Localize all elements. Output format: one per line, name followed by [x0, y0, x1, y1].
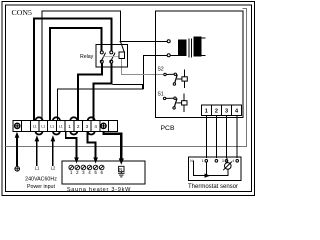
- wire relay contact1 bottom to heater feed: [78, 63, 102, 121]
- connector pin numbers 1-4: [205, 109, 239, 115]
- terminal strip tiny labels: [33, 124, 63, 128]
- svg-text:Relay: Relay: [80, 54, 94, 60]
- thermistor: [225, 163, 232, 170]
- wire power L2 with arrow: [52, 140, 54, 166]
- svg-text:Sauna heater 3-9kW: Sauna heater 3-9kW: [67, 187, 131, 193]
- wire relay contact2 bottom to heater feed: [94, 63, 112, 121]
- strip jumper arcs top: [36, 117, 95, 120]
- svg-text:CON5: CON5: [12, 8, 32, 17]
- svg-text:3: 3: [225, 109, 228, 115]
- thermostat sensor box: [189, 157, 241, 180]
- sensor terminal labels: [190, 159, 234, 163]
- wire strip c6 up to junction, over to S1: [57, 89, 143, 121]
- ground symbol power input: [15, 167, 20, 172]
- wire W2 thick: terminal 3 up over to relay contact 2: [34, 19, 111, 121]
- wire connector to sensor 4: [236, 116, 238, 159]
- terminal strip numbers 1-4: [68, 124, 97, 129]
- relay contact 2: [110, 51, 113, 54]
- wire connector to sensor 2: [215, 116, 217, 159]
- connector CON (1-4) on PCB: [201, 105, 241, 116]
- wire heater feed 1 (to terminal 2): [66, 131, 77, 158]
- wire heater feed 2 (to terminal 5): [87, 131, 95, 158]
- wire power earth with arrow: [16, 137, 18, 167]
- transformer T1 terminal pins: [167, 40, 178, 57]
- wire tap from relay contact2 to S1 feed: [112, 85, 142, 89]
- outer border frame: [2, 2, 255, 196]
- sensor terminals: [205, 160, 208, 163]
- heater terminal numbers 1-6: [70, 170, 104, 175]
- svg-text:4: 4: [232, 159, 234, 163]
- terminal earth symbol left: [15, 123, 20, 128]
- svg-text:4: 4: [94, 124, 97, 129]
- switch S1 actuator: [176, 102, 181, 104]
- wire W3 thick: terminal 5 up over to relay contact 1: [50, 28, 102, 121]
- svg-text:240VAC60Hz: 240VAC60Hz: [25, 177, 57, 183]
- relay linkage (gray): [104, 56, 119, 58]
- svg-text:1: 1: [205, 109, 208, 115]
- relay contact 1: [100, 51, 103, 54]
- switch S2 contacts and lever: [164, 73, 166, 75]
- wire power L1 with arrow: [36, 140, 38, 166]
- svg-text:3: 3: [86, 124, 89, 129]
- svg-text:L1: L1: [41, 124, 45, 128]
- wire connector to sensor 1: [205, 116, 207, 159]
- svg-text:N: N: [119, 167, 122, 172]
- terminal strip X1: [13, 121, 117, 132]
- transformer T1 core: [189, 39, 191, 58]
- power labels: [35, 166, 56, 171]
- switch S1 contacts and lever: [163, 97, 165, 99]
- relay K1 box: [96, 45, 128, 68]
- wire connector to sensor 3: [226, 116, 228, 159]
- heater earth terminal: [119, 166, 124, 171]
- heater terminals 1-6: [69, 165, 104, 170]
- wire W1 thin: terminal 4 up over to relay coil node: [42, 11, 121, 121]
- strip jumper arcs bottom: [36, 131, 95, 134]
- sauna heater box: [62, 161, 145, 184]
- svg-text:Power input: Power input: [27, 184, 55, 190]
- svg-text:L1: L1: [50, 124, 54, 128]
- transformer T1 primary winding: [179, 40, 187, 55]
- wire relay coil bottom to S2 (gray): [122, 59, 164, 75]
- svg-text:1: 1: [202, 159, 204, 163]
- wire right-side loop + partition: [6, 8, 247, 146]
- svg-text:Thermostat sensor: Thermostat sensor: [188, 184, 238, 190]
- wire heater earth (thick): [104, 131, 122, 159]
- svg-text:2: 2: [77, 124, 80, 129]
- wire coil diagonal: [121, 42, 125, 53]
- PCB box: [156, 11, 244, 118]
- wire W1 to transformer primary top: [121, 41, 168, 43]
- svg-text:3: 3: [222, 159, 224, 163]
- transformer T1 secondary winding: [194, 37, 206, 56]
- svg-text:L2: L2: [51, 166, 56, 171]
- svg-text:1: 1: [68, 124, 71, 129]
- svg-text:L1: L1: [59, 124, 63, 128]
- svg-text:PCB: PCB: [161, 125, 175, 132]
- svg-text:2: 2: [215, 109, 218, 115]
- switch S2 actuator: [177, 78, 182, 80]
- terminal earth symbol right: [101, 123, 106, 128]
- relay coil: [119, 52, 125, 58]
- wire transformer primary bottom return to strip: [144, 55, 167, 89]
- svg-text:S2: S2: [158, 67, 164, 73]
- svg-text:L1: L1: [35, 166, 40, 171]
- svg-text:S1: S1: [158, 91, 164, 97]
- sensor internal wiring: [193, 161, 228, 176]
- svg-text:L1: L1: [33, 124, 37, 128]
